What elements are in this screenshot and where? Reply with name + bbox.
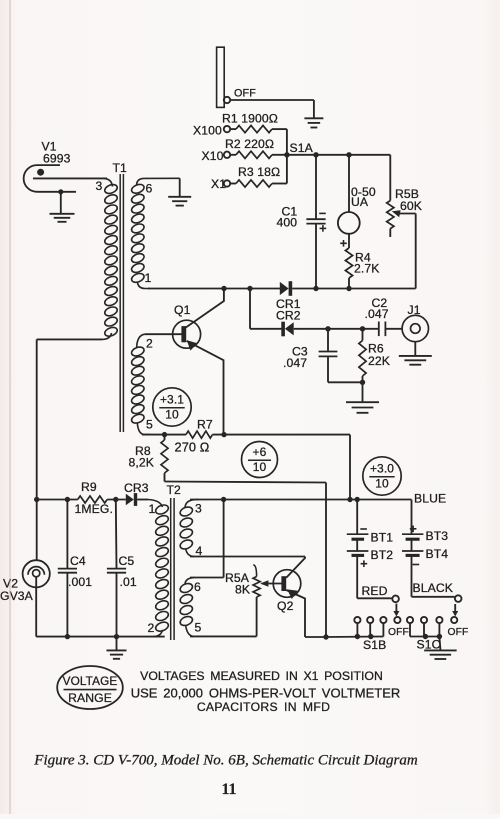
svg-text:270 Ω: 270 Ω bbox=[175, 440, 210, 455]
svg-text:R7: R7 bbox=[197, 418, 213, 432]
svg-text:8,2K: 8,2K bbox=[129, 456, 154, 470]
svg-text:2: 2 bbox=[148, 621, 155, 635]
svg-text:8K: 8K bbox=[235, 583, 250, 597]
svg-text:R2 220Ω: R2 220Ω bbox=[225, 137, 274, 151]
svg-text:1: 1 bbox=[145, 271, 152, 285]
svg-text:400: 400 bbox=[277, 215, 298, 229]
svg-text:X1: X1 bbox=[211, 177, 226, 191]
svg-text:RANGE: RANGE bbox=[68, 691, 112, 705]
svg-text:+3.1: +3.1 bbox=[160, 393, 184, 407]
svg-text:T1: T1 bbox=[113, 161, 128, 175]
svg-text:BLACK: BLACK bbox=[413, 581, 453, 595]
svg-text:.001: .001 bbox=[68, 575, 92, 589]
svg-text:CR3: CR3 bbox=[124, 481, 149, 495]
svg-text:1: 1 bbox=[149, 502, 156, 516]
svg-text:GV3A: GV3A bbox=[0, 589, 34, 603]
svg-text:6: 6 bbox=[194, 580, 201, 594]
svg-text:.047: .047 bbox=[283, 356, 307, 370]
svg-text:BT1: BT1 bbox=[371, 530, 394, 544]
svg-text:C5: C5 bbox=[119, 554, 135, 568]
svg-text:3: 3 bbox=[96, 179, 103, 193]
svg-text:.01: .01 bbox=[120, 575, 137, 589]
svg-text:Figure 3. CD V-700, Model No.: Figure 3. CD V-700, Model No. 6B, Schema… bbox=[33, 752, 418, 768]
svg-text:R3 18Ω: R3 18Ω bbox=[238, 165, 280, 179]
svg-text:VOLTAGE: VOLTAGE bbox=[63, 674, 118, 688]
svg-text:RED: RED bbox=[362, 584, 388, 598]
svg-text:CAPACITORS IN MFD: CAPACITORS IN MFD bbox=[197, 700, 330, 714]
svg-text:+3.0: +3.0 bbox=[370, 462, 394, 476]
svg-text:3: 3 bbox=[195, 501, 202, 515]
svg-text:UA: UA bbox=[351, 195, 369, 209]
svg-text:Q1: Q1 bbox=[174, 303, 191, 317]
svg-text:T2: T2 bbox=[167, 483, 182, 497]
svg-text:10: 10 bbox=[253, 460, 267, 474]
svg-text:6993: 6993 bbox=[43, 152, 71, 166]
svg-text:BT2: BT2 bbox=[371, 548, 394, 562]
svg-text:J1: J1 bbox=[408, 303, 421, 317]
svg-text:S1A: S1A bbox=[290, 141, 314, 155]
svg-text:.047: .047 bbox=[365, 307, 389, 321]
svg-text:CR2: CR2 bbox=[276, 308, 301, 322]
svg-text:1MEG.: 1MEG. bbox=[75, 502, 113, 516]
svg-text:X10: X10 bbox=[202, 149, 224, 163]
svg-text:6: 6 bbox=[146, 182, 153, 196]
svg-text:BT4: BT4 bbox=[426, 547, 449, 561]
svg-text:10: 10 bbox=[165, 408, 179, 422]
svg-text:OFF: OFF bbox=[388, 627, 409, 638]
svg-text:BLUE: BLUE bbox=[414, 491, 446, 505]
svg-text:10: 10 bbox=[375, 477, 389, 491]
svg-text:S1B: S1B bbox=[363, 638, 386, 652]
svg-text:C4: C4 bbox=[70, 554, 86, 568]
svg-text:60K: 60K bbox=[400, 199, 422, 213]
svg-text:X100: X100 bbox=[193, 124, 222, 138]
svg-text:OFF: OFF bbox=[234, 87, 256, 99]
svg-text:BT3: BT3 bbox=[426, 529, 449, 543]
svg-text:2: 2 bbox=[146, 337, 153, 351]
svg-text:+6: +6 bbox=[253, 445, 267, 459]
svg-text:22K: 22K bbox=[368, 354, 390, 368]
svg-text:VOLTAGES MEASURED IN X1 POSITI: VOLTAGES MEASURED IN X1 POSITION bbox=[140, 669, 383, 683]
svg-text:R9: R9 bbox=[81, 480, 97, 494]
svg-text:11: 11 bbox=[222, 781, 237, 798]
svg-text:Q2: Q2 bbox=[277, 599, 294, 613]
svg-text:5: 5 bbox=[146, 417, 153, 431]
svg-text:OFF: OFF bbox=[448, 627, 469, 638]
svg-text:2.7K: 2.7K bbox=[354, 262, 379, 276]
svg-text:5: 5 bbox=[195, 620, 202, 634]
svg-text:R1 1900Ω: R1 1900Ω bbox=[222, 112, 278, 126]
svg-text:S1C: S1C bbox=[417, 638, 441, 652]
svg-text:USE 20,000 OHMS-PER-VOLT VOLTM: USE 20,000 OHMS-PER-VOLT VOLTMETER bbox=[131, 685, 401, 700]
